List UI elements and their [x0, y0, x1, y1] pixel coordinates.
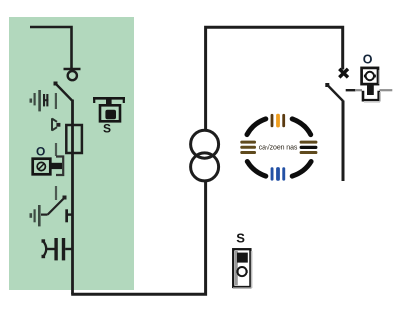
fuse F1: [66, 125, 82, 153]
svg-text:S: S: [236, 231, 245, 246]
terminal circle: [68, 71, 77, 80]
svg-text:O: O: [363, 53, 373, 67]
operator icon (drive) for disconnector: [30, 99, 33, 103]
gray link lines: [355, 89, 362, 91]
wire: down from utility switch: [342, 101, 345, 182]
earthing switch blade: [41, 214, 48, 216]
svg-text:O: O: [36, 145, 45, 159]
svg-text:S: S: [103, 122, 111, 136]
withdrawable plug contacts (bottom): [43, 241, 46, 257]
drawout bracket (U): [363, 91, 379, 100]
svg-text:ca√zoen nas: ca√zoen nas: [259, 143, 298, 151]
motor box: [362, 68, 378, 84]
utility logo: arcs: [247, 119, 311, 176]
breaker X marker: [339, 69, 348, 78]
drawout bracket: [56, 157, 63, 176]
plug stem: [367, 84, 374, 95]
wire: incoming feeder top-left: [30, 27, 72, 68]
mech link to motor box: [55, 143, 57, 156]
earthing switch operator: [30, 213, 33, 218]
fixed contact: [65, 209, 68, 222]
remote control icon S (in panel): [93, 97, 125, 100]
disconnector Q1 blade: [55, 83, 72, 101]
spring charge indicator triangle: [52, 118, 57, 130]
green cubicle panel: [9, 17, 134, 290]
plug stem: [51, 163, 63, 169]
utility disconnector blade: [327, 85, 343, 101]
logo bars E: [300, 141, 318, 144]
transformer T1: [191, 130, 219, 158]
wire: bottom run to transformer: [71, 182, 205, 295]
logo bars N: [271, 114, 274, 127]
wire: top run to utility switch: [206, 27, 343, 130]
node: fixed contact bar: [64, 68, 81, 70]
logo bars S: [271, 167, 274, 180]
logo bars W: [240, 141, 256, 144]
mech link vertical: [55, 93, 57, 109]
wire: main vertical bus in panel: [71, 100, 74, 295]
motor operator M box with blocked symbol: [33, 159, 51, 175]
